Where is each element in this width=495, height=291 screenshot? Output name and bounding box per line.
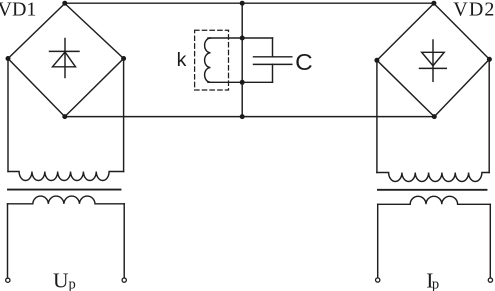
- node tank bottom: [240, 80, 245, 85]
- transformer T2 core: [378, 189, 487, 191]
- inductor k (coil): [205, 38, 211, 82]
- wire VD2 left vertex down to T2 primary: [376, 60, 378, 172]
- diode bridge VD2 (diamond): [377, 4, 490, 117]
- capacitor C: [254, 38, 292, 82]
- svg-text:C: C: [295, 49, 313, 75]
- coupling screen k (dashed box): [195, 30, 229, 90]
- node VD1 bottom: [62, 114, 67, 119]
- svg-text:Ip: Ip: [426, 269, 439, 291]
- transformer T1 core: [8, 189, 121, 191]
- transformer T1 primary winding: [8, 172, 124, 181]
- wire tank top stub: [208, 37, 273, 39]
- wire VD2 right vertex down to T2 primary: [488, 59, 490, 172]
- node VD1 right: [121, 56, 126, 61]
- transformer T2 secondary winding: [378, 196, 491, 204]
- wire top bus: [65, 2, 434, 4]
- wire VD1 right vertex down to T1 primary: [123, 59, 125, 172]
- diode VD1 symbol: [50, 39, 80, 78]
- diode bridge VD1 (diamond): [8, 4, 124, 117]
- wire T2 secondary right lead: [489, 204, 491, 277]
- terminal T2 right: [488, 278, 492, 282]
- transformer T2 primary winding: [377, 173, 489, 182]
- terminal T1 left: [6, 278, 10, 282]
- node VD2 top: [431, 1, 436, 6]
- svg-text:Up: Up: [53, 268, 76, 291]
- wire T1 secondary right lead: [123, 204, 125, 278]
- node VD2 left: [374, 58, 379, 63]
- wire T2 secondary left lead: [377, 204, 379, 277]
- terminal T1 right: [122, 278, 126, 282]
- wire bottom bus: [65, 116, 435, 118]
- diode VD2 symbol: [420, 40, 447, 81]
- terminal T2 left: [376, 278, 380, 282]
- wire center vertical: [241, 3, 243, 116]
- node VD2 bottom: [432, 114, 437, 119]
- node center top: [240, 1, 245, 6]
- node center bottom: [240, 114, 245, 119]
- node VD2 right: [487, 57, 492, 62]
- node tank top: [240, 36, 245, 41]
- node VD1 top: [62, 1, 67, 6]
- node VD1 left: [6, 56, 11, 61]
- svg-text:VD2: VD2: [453, 0, 495, 20]
- transformer T1 secondary winding: [8, 196, 125, 204]
- svg-text:VD1: VD1: [0, 0, 36, 21]
- wire VD1 left vertex down to T1 primary: [7, 59, 9, 172]
- wire tank bottom stub: [208, 81, 273, 83]
- wire T1 secondary left lead: [7, 204, 9, 278]
- svg-text:k: k: [177, 49, 187, 71]
